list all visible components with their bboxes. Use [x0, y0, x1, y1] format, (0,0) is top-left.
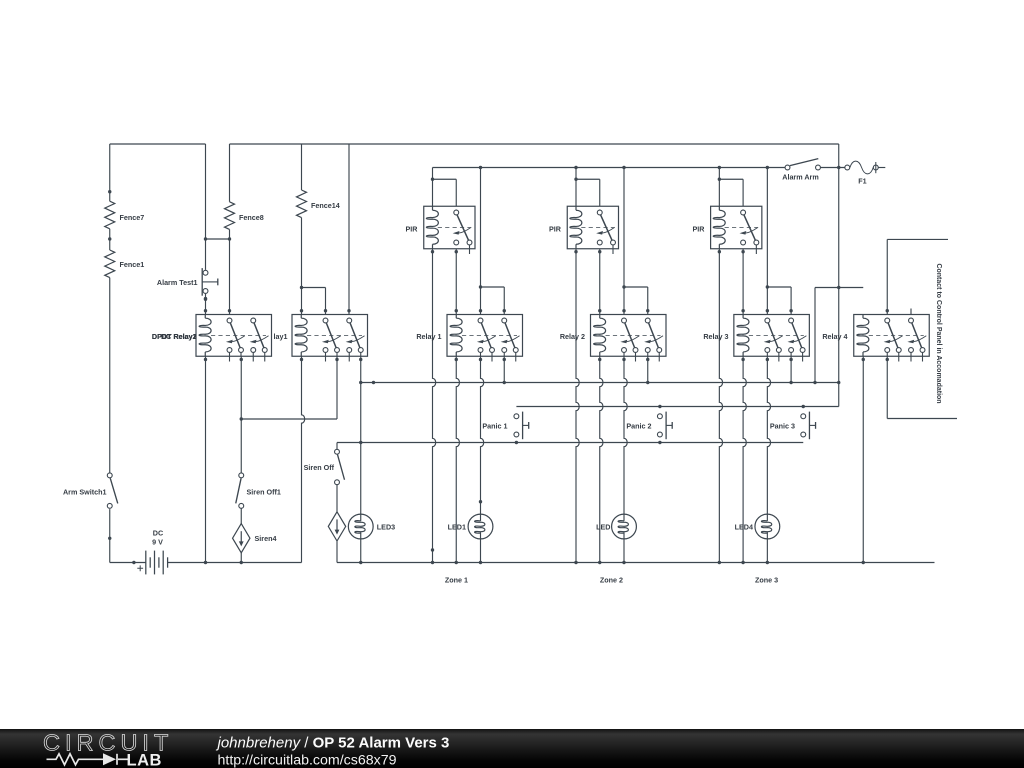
svg-text:Contact to Control Panel in Ac: Contact to Control Panel in Accomadation	[935, 263, 942, 403]
svg-text:LAB: LAB	[127, 752, 162, 768]
svg-text:http://circuitlab.com/cs68x79: http://circuitlab.com/cs68x79	[218, 753, 397, 768]
svg-text:Fence8: Fence8	[239, 213, 264, 222]
svg-text:LED3: LED3	[377, 522, 395, 531]
svg-text:Fence14: Fence14	[311, 201, 340, 210]
svg-text:LED: LED	[596, 522, 610, 531]
svg-text:Panic 3: Panic 3	[770, 421, 795, 430]
svg-text:johnbreheny / OP 52 Alarm Vers: johnbreheny / OP 52 Alarm Vers 3	[216, 734, 450, 751]
svg-text:Siren Off: Siren Off	[304, 463, 335, 472]
svg-text:Relay 3: Relay 3	[703, 332, 728, 341]
svg-text:Relay 1: Relay 1	[416, 332, 441, 341]
svg-text:LED4: LED4	[735, 522, 753, 531]
svg-text:DC: DC	[153, 529, 163, 538]
svg-text:Siren Off1: Siren Off1	[247, 487, 281, 496]
svg-text:Alarm Test1: Alarm Test1	[157, 278, 198, 287]
svg-text:lay1: lay1	[274, 332, 288, 341]
svg-text:PIR: PIR	[693, 225, 706, 234]
svg-text:Relay 2: Relay 2	[560, 332, 585, 341]
svg-text:F1: F1	[858, 177, 866, 186]
svg-text:Panic 1: Panic 1	[482, 421, 507, 430]
svg-text:LED1: LED1	[448, 522, 466, 531]
svg-text:Fence7: Fence7	[120, 213, 145, 222]
svg-text:Zone 2: Zone 2	[600, 576, 623, 585]
svg-text:9 V: 9 V	[152, 538, 163, 547]
svg-text:Relay 4: Relay 4	[822, 332, 847, 341]
svg-text:Panic 2: Panic 2	[626, 421, 651, 430]
svg-text:Siren4: Siren4	[255, 534, 277, 543]
svg-text:Alarm Arm: Alarm Arm	[782, 173, 818, 182]
svg-text:PIR: PIR	[406, 225, 419, 234]
svg-text:Zone 1: Zone 1	[445, 576, 468, 585]
svg-text:DPDT Relay3: DPDT Relay3	[152, 332, 197, 341]
svg-text:Fence1: Fence1	[120, 260, 145, 269]
svg-text:PIR: PIR	[549, 225, 562, 234]
svg-text:Zone 3: Zone 3	[755, 576, 778, 585]
svg-text:Arm Switch1: Arm Switch1	[63, 487, 107, 496]
